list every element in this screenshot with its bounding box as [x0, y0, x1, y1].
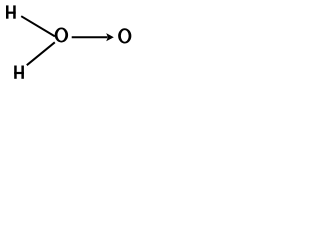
bond H-O (upper): [21, 16, 55, 36]
atom O (terminal oxygen): [118, 28, 131, 43]
atom O (central oxygen): [55, 28, 68, 43]
bond H-O (lower): [27, 42, 55, 65]
dative bond arrow O->O: [72, 33, 114, 41]
background: [0, 0, 135, 83]
atom H (top-left hydrogen): [6, 5, 16, 18]
atom H (bottom-left hydrogen): [14, 66, 24, 79]
structural formula of oxywater H2O->O: [0, 0, 135, 83]
